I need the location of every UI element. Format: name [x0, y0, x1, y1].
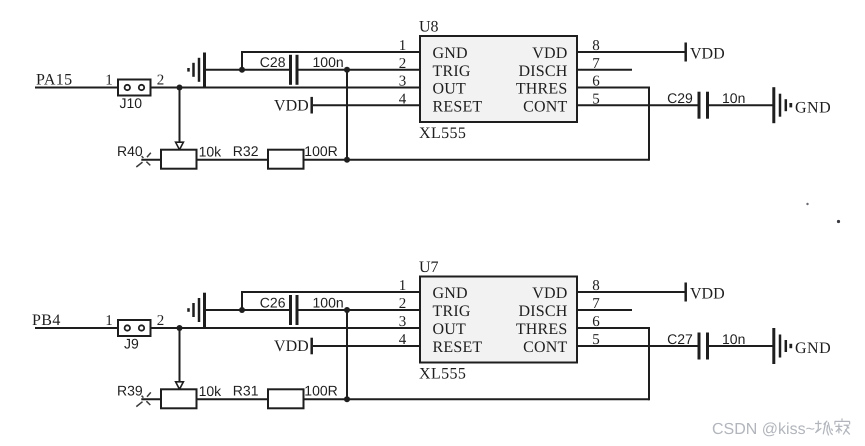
wire ground to C26 [206, 309, 290, 311]
svg-text:GND: GND [795, 99, 831, 116]
potentiometer R39 10k [117, 382, 222, 408]
svg-text:10n: 10n [722, 331, 745, 347]
wire TRIG node to resistor row (vertical) [346, 70, 348, 159]
svg-text:4: 4 [399, 332, 407, 348]
svg-text:CSDN @kiss~: CSDN @kiss~ [712, 421, 815, 438]
wire PB4 to J9 pin 1 [35, 327, 118, 329]
wire VDD to U8 pin 4 RESET [313, 104, 420, 106]
node PB4 [32, 312, 61, 329]
ground GND at C27 [774, 328, 831, 364]
svg-text:TRIG: TRIG [433, 63, 471, 80]
junction OUT node [177, 85, 183, 91]
wire OUT node to R39 wiper [179, 328, 181, 382]
svg-text:R39: R39 [117, 382, 143, 398]
junction C to TRIG-THRES vertical [344, 67, 350, 73]
svg-text:VDD: VDD [274, 97, 309, 114]
svg-text:1: 1 [105, 73, 113, 89]
wire R32 to THRES riser [304, 159, 650, 161]
svg-text:2: 2 [157, 313, 165, 329]
svg-text:VDD: VDD [532, 45, 567, 62]
junction TRIG/THRES node on resistor row [344, 396, 350, 402]
svg-text:100R: 100R [304, 143, 337, 159]
node PA15 [36, 71, 73, 88]
svg-text:DISCH: DISCH [518, 303, 567, 320]
wire J9 pin 2 to U7 pin 3 OUT [151, 327, 421, 329]
capacitor C29 10n [667, 90, 745, 119]
wire THRES riser to U7 pin 6 [577, 328, 650, 400]
resistor R31 100R [233, 383, 338, 409]
wire U7 pin 8 to VDD [577, 291, 685, 293]
IC U8 XL555 timer [399, 19, 601, 143]
svg-text:3: 3 [399, 74, 407, 90]
junction GND/C tie on TRIG line [239, 67, 245, 73]
wire U7 pin 5 CONT to C27 [577, 345, 698, 347]
svg-text:C29: C29 [667, 90, 693, 106]
junction C to TRIG-THRES vertical [344, 307, 350, 313]
wire U8 pin 1 GND to ground node [242, 52, 420, 70]
wire J10 pin 2 to U8 pin 3 OUT [151, 87, 421, 89]
svg-text:U7: U7 [419, 259, 439, 276]
wire R39 to R31 [197, 398, 269, 400]
wire OUT node to R40 wiper [179, 88, 181, 143]
wire U8 pin 5 CONT to C29 [577, 104, 698, 106]
svg-text:10k: 10k [199, 383, 223, 399]
capacitor C27 10n [667, 331, 745, 360]
junction OUT node [177, 325, 183, 331]
svg-text:2: 2 [157, 73, 165, 89]
svg-text:RESET: RESET [433, 339, 483, 356]
wire R31 to THRES riser [304, 398, 650, 400]
wire PA15 to J10 pin 1 [35, 87, 118, 89]
ground (rotated) at C26 [189, 293, 205, 328]
svg-text:RESET: RESET [433, 98, 483, 115]
svg-text:100R: 100R [304, 383, 337, 399]
junction GND/C tie on TRIG line [239, 307, 245, 313]
power VDD at U7 pin 8 [686, 283, 725, 303]
power VDD at U8 pin 8 [686, 43, 725, 63]
wire R40 to R32 [197, 159, 269, 161]
wire U7 pin 1 GND to ground node [242, 292, 420, 310]
power VDD at U7 RESET [274, 338, 312, 356]
junction TRIG/THRES node on resistor row [344, 157, 350, 163]
svg-text:J10: J10 [120, 95, 143, 111]
svg-text:R31: R31 [233, 383, 259, 399]
svg-text:GND: GND [433, 45, 468, 62]
svg-text:2: 2 [399, 56, 407, 72]
svg-text:CONT: CONT [523, 339, 567, 356]
svg-text:GND: GND [433, 285, 468, 302]
wire U8 pin 8 to VDD [577, 51, 685, 53]
svg-text:VDD: VDD [274, 338, 309, 355]
svg-text:C28: C28 [260, 54, 286, 70]
ground (rotated) at C28 [189, 53, 205, 88]
svg-text:VDD: VDD [690, 46, 725, 63]
no-connect X on R40 left terminal [136, 153, 151, 167]
svg-text:PA15: PA15 [36, 71, 73, 88]
svg-text:OUT: OUT [433, 81, 467, 98]
wire U7 pin 7 DISCH stub [577, 309, 632, 311]
svg-text:CONT: CONT [523, 98, 567, 115]
svg-text:C27: C27 [667, 331, 693, 347]
svg-text:DISCH: DISCH [518, 63, 567, 80]
svg-text:3: 3 [399, 314, 407, 330]
svg-text:TRIG: TRIG [433, 303, 471, 320]
potentiometer R39 wiper arrow [176, 382, 184, 390]
svg-text:XL555: XL555 [419, 125, 466, 142]
svg-text:R40: R40 [117, 143, 143, 159]
capacitor C26 100n [260, 294, 344, 325]
svg-text:6: 6 [592, 314, 600, 330]
IC U7 XL555 timer [399, 259, 601, 383]
svg-text:1: 1 [399, 38, 407, 54]
svg-text:10n: 10n [722, 90, 745, 106]
connector J10 [105, 73, 164, 111]
no-connect X on R39 left terminal [136, 392, 151, 406]
resistor R32 100R [233, 143, 338, 169]
wire THRES riser to U8 pin 6 [577, 88, 650, 161]
svg-text:10k: 10k [199, 144, 223, 160]
svg-text:THRES: THRES [516, 321, 568, 338]
svg-text:100n: 100n [313, 294, 344, 310]
svg-text:OUT: OUT [433, 321, 467, 338]
svg-text:4: 4 [399, 91, 407, 107]
svg-text:1: 1 [399, 278, 407, 294]
svg-text:THRES: THRES [516, 81, 568, 98]
connector J9 [105, 313, 164, 351]
potentiometer R40 wiper arrow [176, 142, 184, 150]
wire VDD to U7 pin 4 RESET [313, 345, 420, 347]
svg-text:R32: R32 [233, 143, 259, 159]
wire C28 to U8 pin 2 TRIG [299, 69, 421, 71]
svg-text:PB4: PB4 [32, 312, 61, 329]
watermark CSDN [712, 418, 850, 437]
wire C29 to GND [709, 104, 773, 106]
svg-text:J9: J9 [124, 336, 139, 352]
svg-text:VDD: VDD [690, 286, 725, 303]
svg-text:6: 6 [592, 74, 600, 90]
svg-text:XL555: XL555 [419, 366, 466, 383]
svg-text:VDD: VDD [532, 285, 567, 302]
svg-text:100n: 100n [313, 54, 344, 70]
wire ground to C28 [206, 69, 290, 71]
svg-text:U8: U8 [419, 19, 439, 36]
wire C27 to GND [709, 345, 773, 347]
wire U8 pin 7 DISCH stub [577, 69, 632, 71]
wire TRIG node to resistor row (vertical) [346, 310, 348, 399]
svg-text:2: 2 [399, 296, 407, 312]
svg-text:GND: GND [795, 340, 831, 357]
ground GND at C29 [774, 87, 831, 123]
power VDD at U8 RESET [274, 97, 312, 115]
wire C26 to U7 pin 2 TRIG [299, 309, 421, 311]
potentiometer R40 10k [117, 143, 222, 169]
svg-text:1: 1 [105, 313, 113, 329]
capacitor C28 100n [260, 54, 344, 85]
svg-text:C26: C26 [260, 294, 286, 310]
